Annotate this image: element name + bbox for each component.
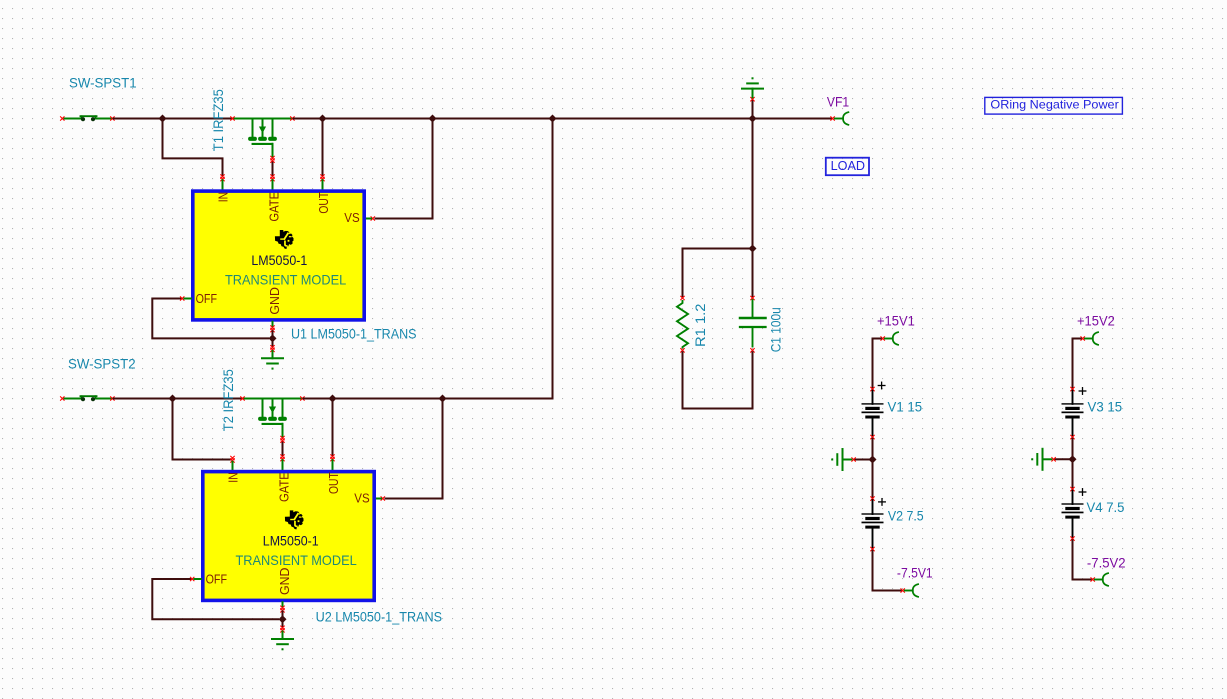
wire T1 to node J2 — [294, 118, 323, 120]
pin x ground 2 — [1052, 458, 1056, 462]
pin x V3 plus — [1071, 387, 1075, 391]
pin stub U2 OFF — [194, 578, 201, 580]
junction U1 GND node — [269, 334, 277, 342]
wire junction to ground U1 — [272, 342, 274, 346]
pin x U1 OFF — [180, 297, 184, 301]
battery V2 7.5 — [862, 500, 884, 547]
pin x R1 bottom — [681, 349, 685, 353]
resistor R1 — [677, 300, 688, 349]
plus sign V3 — [1079, 388, 1086, 395]
pin x U2 OFF — [190, 577, 194, 581]
pin x switch1 right — [111, 117, 115, 121]
pin x +15V1 — [881, 337, 885, 341]
svg-text:VS: VS — [344, 210, 360, 225]
wire J5 to output terminal — [753, 118, 832, 120]
svg-text:ORing Negative Power: ORing Negative Power — [990, 98, 1118, 112]
wire U1 GND to junction — [272, 331, 274, 335]
battery V4 7.5 — [1062, 491, 1084, 537]
wire terminal to V3 — [1073, 339, 1081, 388]
wire mid junction 2 to V4 — [1072, 459, 1074, 487]
pin x T2 right — [301, 397, 305, 401]
terminal +15V1 — [893, 332, 898, 345]
svg-text:IN: IN — [215, 192, 230, 202]
battery V1 15 — [862, 391, 884, 436]
op-amp U2 LM5050-1 macro box — [203, 472, 374, 601]
wire load node to C1 top — [752, 250, 754, 297]
wire V2 to terminal -7.5V1 — [873, 551, 901, 591]
lead -7.5V1 — [905, 590, 913, 592]
pin x T1 right — [291, 117, 295, 121]
svg-text:+15V1: +15V1 — [877, 313, 915, 329]
pin x C1 top — [751, 296, 755, 300]
pin x U1 ground — [271, 346, 275, 350]
svg-text:IN: IN — [225, 472, 240, 482]
ground above J5 — [742, 77, 763, 118]
wire J3 to J4 — [433, 118, 553, 120]
pin x U2 OUT top — [331, 455, 335, 459]
junction battery stack 2 mid — [1069, 455, 1077, 463]
terminal VF1 — [843, 112, 848, 125]
wire switch1 to node J1 — [114, 118, 163, 120]
svg-text:GND: GND — [267, 287, 282, 315]
pin stub U1 OUT — [322, 180, 324, 189]
TI logo U1 — [275, 230, 294, 249]
pin x U1 GND — [271, 326, 275, 330]
wire mid junction to V2 — [872, 460, 874, 498]
pin stub U2 GND — [282, 602, 284, 606]
pin stub U2 IN — [232, 462, 234, 470]
lead +15V2 — [1085, 338, 1093, 340]
wire mid junction to ground 1 — [855, 459, 872, 461]
junction J7 — [329, 395, 337, 403]
svg-text:+15V2: +15V2 — [1077, 313, 1115, 329]
terminal -7.5V1 — [913, 584, 918, 597]
pin stub U2 OUT — [332, 460, 334, 470]
wire U1 OFF loop — [152, 299, 268, 339]
plus sign V1 — [878, 382, 885, 389]
switch SW-SPST1 — [64, 116, 111, 121]
pin x +15V2 — [1081, 337, 1085, 341]
wire J6 to T2 — [173, 398, 242, 400]
lead -7.5V2 — [1095, 579, 1103, 581]
capacitor C1 — [740, 300, 766, 347]
pin x U1 GATE top — [271, 175, 275, 179]
ground U1 — [262, 351, 283, 370]
pin x U2 GATE top — [281, 455, 285, 459]
wire J6 to U2 IN pin — [173, 400, 231, 460]
svg-text:GATE: GATE — [267, 192, 282, 222]
switch SW-SPST2 — [64, 396, 111, 401]
transistor T2 IRFZ35 — [244, 399, 302, 437]
junction J8 — [439, 395, 447, 403]
wire J3 to U1 VS pin — [376, 120, 433, 219]
pin x T2 gate — [281, 436, 285, 440]
svg-text:V2 7.5: V2 7.5 — [888, 508, 924, 524]
svg-text:U1 LM5050-1_TRANS: U1 LM5050-1_TRANS — [291, 325, 417, 341]
svg-text:V4 7.5: V4 7.5 — [1087, 499, 1125, 515]
ground U2 — [272, 632, 293, 651]
wire load node to R1 top — [683, 249, 753, 297]
wire J7 to J8 — [333, 398, 443, 400]
svg-text:C1 100u: C1 100u — [767, 307, 783, 352]
wire J2 to U1 OUT pin — [322, 120, 324, 176]
pin x V4 minus — [1071, 537, 1075, 541]
pin x T2 left — [241, 397, 245, 401]
wire J8 to J4 riser — [443, 120, 553, 399]
pin x -7.5V1 — [901, 589, 905, 593]
pin x switch2 right — [111, 397, 115, 401]
wire T2 gate to U2 GATE pin — [282, 441, 284, 455]
junction J1 — [159, 115, 167, 123]
svg-text:V3 15: V3 15 — [1088, 399, 1123, 415]
pin stub U2 GATE — [282, 460, 284, 470]
pin x V2 minus — [871, 547, 875, 551]
svg-text:VS: VS — [354, 490, 370, 505]
junction load node — [749, 245, 757, 253]
svg-text:GATE: GATE — [277, 472, 292, 502]
annotation box LOAD — [826, 158, 869, 176]
pin x U2 GND — [281, 606, 285, 610]
svg-text:T1 IRFZ35: T1 IRFZ35 — [210, 89, 226, 151]
svg-text:V1 15: V1 15 — [888, 399, 923, 415]
wire V1 to mid junction — [872, 439, 874, 460]
svg-text:U2 LM5050-1_TRANS: U2 LM5050-1_TRANS — [316, 608, 443, 624]
wire J7 to U2 OUT pin — [332, 400, 334, 456]
pin x T1 gate — [271, 156, 275, 160]
pin x U1 VS — [371, 217, 375, 221]
svg-text:LOAD: LOAD — [831, 158, 865, 173]
wire J1 to U1 IN pin — [163, 120, 223, 176]
pin x switch1 left — [61, 117, 65, 121]
wire J8 to U2 VS pin — [386, 400, 443, 499]
pin x T1 left — [231, 117, 235, 121]
pin x U2 IN top — [231, 456, 235, 460]
wire R1 bottom to C1 bottom — [683, 352, 753, 408]
battery V3 15 — [1062, 391, 1084, 436]
pin x VF1 — [831, 117, 835, 121]
wire J1 to T1 — [163, 118, 232, 120]
junction J3 — [429, 115, 437, 123]
ground battery stack 2 — [1031, 449, 1051, 470]
pin x V1 minus — [871, 435, 875, 439]
svg-text:TRANSIENT MODEL: TRANSIENT MODEL — [225, 272, 346, 288]
pin stub U1 GATE — [272, 180, 274, 189]
svg-text:SW-SPST1: SW-SPST1 — [69, 75, 137, 91]
svg-text:OFF: OFF — [206, 572, 227, 587]
pin x R1 top — [681, 296, 685, 300]
pin stub U1 VS — [366, 218, 371, 220]
svg-text:GND: GND — [277, 568, 292, 596]
wire T1 gate to U1 GATE pin — [272, 161, 274, 175]
svg-text:-7.5V2: -7.5V2 — [1087, 554, 1126, 570]
lead +15V1 — [885, 338, 893, 340]
svg-text:TRANSIENT MODEL: TRANSIENT MODEL — [236, 552, 357, 568]
wire J4 to J5 — [553, 118, 753, 120]
svg-text:SW-SPST2: SW-SPST2 — [68, 355, 136, 371]
pin x C1 bottom — [751, 349, 755, 353]
svg-text:OUT: OUT — [316, 192, 331, 214]
wire T2 to node J7 — [304, 398, 333, 400]
pin x V1 plus — [871, 387, 875, 391]
wire terminal to V1 — [873, 339, 881, 388]
op-amp U1 LM5050-1 macro box — [193, 191, 364, 320]
wire U2 GND to junction — [282, 611, 284, 615]
annotation box ORing Negative Power — [985, 97, 1123, 114]
pin x switch2 left — [61, 397, 65, 401]
pin x -7.5V2 — [1091, 578, 1095, 582]
wire U2 OFF loop — [152, 579, 278, 619]
pin x V3 minus — [1071, 435, 1075, 439]
pin x U1 OUT top — [321, 175, 325, 179]
wire V3 to mid junction 2 — [1072, 439, 1074, 460]
svg-text:LM5050-1: LM5050-1 — [263, 533, 319, 549]
ground battery stack 1 — [831, 449, 851, 470]
wire J5 down to load node — [752, 120, 754, 249]
pin x V4 plus — [1071, 487, 1075, 491]
junction U2 GND node — [279, 615, 287, 623]
wire mid junction 2 to ground 2 — [1055, 458, 1072, 460]
pin x U2 ground — [281, 626, 285, 630]
terminal +15V2 — [1093, 332, 1098, 345]
transistor T1 IRFZ35 — [234, 119, 292, 157]
lead VF1 — [835, 118, 843, 120]
pin x U1 IN top — [221, 175, 225, 179]
svg-text:VF1: VF1 — [827, 93, 849, 109]
svg-text:LM5050-1: LM5050-1 — [251, 252, 307, 268]
wire J2 to J3 — [323, 118, 433, 120]
pin stub U1 GND — [272, 322, 274, 326]
terminal -7.5V2 — [1103, 573, 1108, 586]
svg-text:-7.5V1: -7.5V1 — [897, 565, 933, 581]
pin x V2 plus — [871, 497, 875, 501]
pin stub U1 IN — [222, 180, 224, 189]
plus sign V2 — [879, 499, 886, 506]
svg-text:OFF: OFF — [196, 291, 217, 306]
svg-text:T2 IRFZ35: T2 IRFZ35 — [220, 369, 236, 431]
plus sign V4 — [1079, 489, 1086, 496]
svg-text:R1 1.2: R1 1.2 — [692, 303, 708, 347]
junction J4 — [549, 115, 557, 123]
pin x U2 VS — [381, 497, 385, 501]
junction J6 — [169, 395, 177, 403]
junction battery stack 1 mid — [869, 456, 877, 464]
junction J2 — [319, 115, 327, 123]
pin stub U2 VS — [376, 498, 381, 500]
wire V4 to terminal -7.5V2 — [1073, 540, 1091, 579]
TI logo U2 — [285, 510, 304, 529]
wire junction to ground U2 — [282, 623, 284, 627]
svg-text:OUT: OUT — [326, 472, 341, 494]
pin x ground 1 — [852, 458, 856, 462]
wire switch2 to node J6 — [114, 398, 173, 400]
junction J5 — [749, 115, 757, 123]
pin stub U1 OFF — [184, 298, 191, 300]
